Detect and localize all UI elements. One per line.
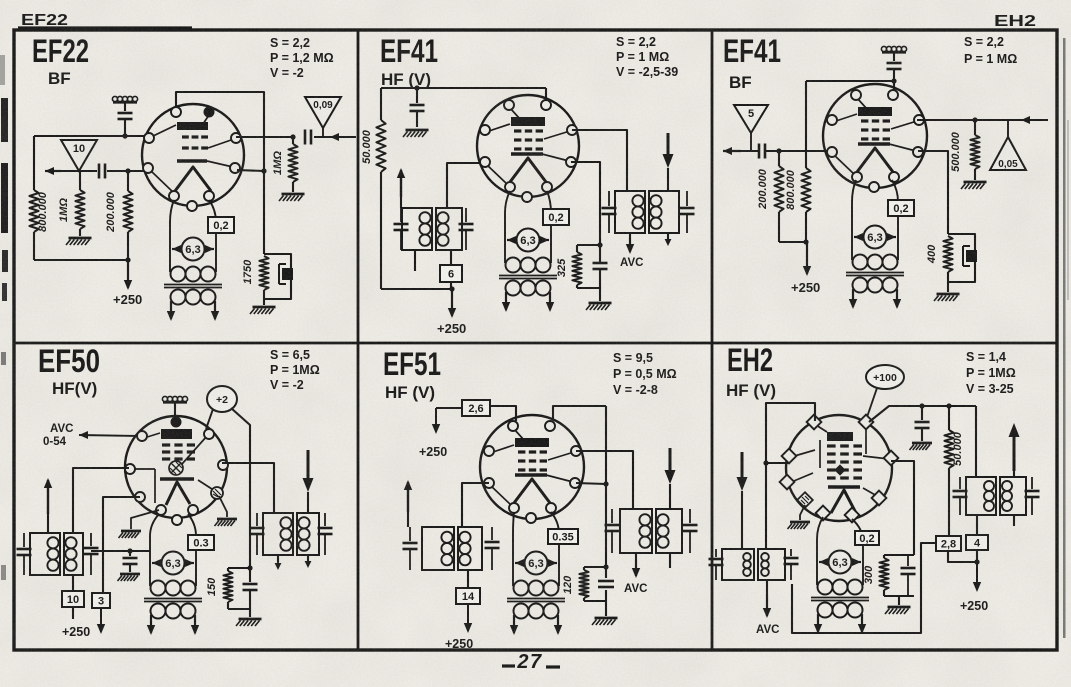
wire grid lead to T5 — [462, 483, 489, 527]
wire anode lead to T6 — [576, 451, 633, 509]
box anode current 10 mA — [62, 591, 84, 607]
ground cathode (EF41 HF) — [589, 302, 612, 305]
arrow signal input from right — [329, 136, 331, 138]
wire oscillator cathode branch — [891, 461, 914, 555]
wire grid-1 input bus y136 — [34, 135, 150, 137]
resistor R2 1 Mohm grid leak — [75, 190, 84, 229]
node bus — [919, 403, 924, 408]
wire heater lead right (EF41HF) — [547, 191, 551, 263]
box screen current 3 mA — [92, 593, 110, 608]
wire bus to T8 — [975, 406, 977, 477]
transformer secondary leads with arrows (EF41BF) — [852, 289, 854, 307]
wire can2 to box — [450, 250, 452, 265]
resistor R6 50.000 ohm screen feed — [376, 120, 385, 172]
transformer secondary (EF41HF) — [506, 281, 521, 296]
heater voltage circle 6,3 V (EF51) — [525, 552, 548, 575]
wire anode lead to right transformer — [572, 130, 627, 191]
capacitor C20 tuning — [409, 527, 411, 541]
arrow signal input big down — [667, 133, 670, 164]
wire stem to R9 — [805, 81, 807, 168]
arrow AVC to grid — [78, 434, 80, 436]
node top bus — [414, 85, 419, 90]
transformer secondary (EF41BF) — [853, 278, 868, 293]
heater voltage circle 6,3 V (EF41BF) — [864, 226, 887, 249]
mains transformer primary (EF41BF) — [853, 255, 868, 270]
wire under can (EH2) — [1013, 515, 1015, 526]
ground under oscillator pin (EF50) — [219, 496, 227, 517]
tube EF22 envelope with electrodes — [142, 104, 244, 206]
arrow AVC down (EH2) — [766, 580, 768, 594]
capacitance box 0.3 pF (EF50) — [188, 535, 214, 550]
wire heater lead left (EH2) — [817, 517, 823, 585]
capacitor C16 cathode bypass — [129, 551, 131, 556]
capacitor C29 tuning — [1031, 477, 1033, 489]
transformer secondary leads with arrows (EF22) — [170, 301, 172, 319]
arrows under can (EF50) — [277, 555, 279, 562]
capacitor C13 electrolytic bypass — [966, 250, 977, 262]
wire grid to frame — [766, 462, 789, 464]
wire R14 to box 2,8 — [948, 468, 950, 536]
arrow AVC output down — [629, 233, 631, 238]
wire screen bus to tube and right — [490, 406, 516, 421]
wire stem to ground — [947, 282, 949, 292]
wire anode top bus (EH2) — [869, 406, 976, 422]
mains transformer primary (EF51) — [514, 581, 529, 596]
wire heater lead right (EF51) — [551, 512, 559, 586]
wire left column down — [380, 172, 382, 289]
supply +250 arrow (EH2) — [976, 562, 978, 590]
mixer dot electrode — [834, 464, 845, 475]
ground under R2 — [79, 229, 81, 236]
resistor R3 200.000 ohm — [123, 191, 132, 232]
wire boxes to +250 — [948, 551, 977, 562]
wire cathode branch (EF41 BF) — [918, 151, 948, 234]
triangle input level 0,09 — [305, 97, 341, 128]
transformer secondary leads with arrows (EF51) — [513, 615, 515, 633]
capacitor C28 tuning — [959, 477, 961, 489]
wire heater lead left (EF41HF) — [505, 191, 510, 263]
IF transformer T4 right (EF50) — [263, 513, 293, 555]
IF transformer T3 left (EF50) — [30, 533, 60, 575]
resistor R8 200.000 ohm — [778, 151, 780, 166]
box screen current 2,6 mA — [462, 400, 490, 416]
node grid divider junction — [776, 148, 781, 153]
IF transformer T7 left (EH2) — [722, 549, 754, 580]
capacitor C15 tuning — [90, 533, 92, 546]
capacitance box 0.35 pF — [548, 529, 578, 544]
capacitor C14 tuning — [23, 533, 25, 547]
arrow anode signal up (EF51) — [407, 512, 409, 527]
capacitor C27 decoupling — [921, 406, 923, 420]
mains transformer primary (EH2) — [818, 580, 833, 595]
transformer secondary (EF22) — [171, 290, 186, 305]
capacitor C30 bypass — [907, 555, 909, 566]
wire under can — [414, 250, 416, 271]
wire under can (EF51) — [669, 553, 671, 568]
heater voltage circle 6,3 V (EF22) — [182, 238, 205, 261]
box current 4 mA — [966, 535, 988, 550]
wire cathode-screen branch — [571, 162, 600, 245]
supply +250 V arrow — [127, 260, 129, 288]
capacitor C10 cathode bypass — [593, 262, 608, 265]
wire grid input y151 — [741, 150, 759, 152]
wire stem to tube pin — [893, 69, 895, 91]
scan artifact page edge right — [1063, 38, 1066, 638]
wire stems +250 (EF50) — [72, 607, 74, 619]
heater measurement arrows (EF50) — [152, 562, 161, 564]
ground under C5 — [416, 111, 418, 127]
arrow output left (EF41 BF) — [723, 150, 741, 152]
resistor R12 150 ohm cathode — [227, 568, 229, 571]
arrow signal input big down (EH2) — [741, 452, 744, 487]
arrow signal output big up (EH2) — [1013, 471, 1015, 477]
wire heater lead left (EF50) — [150, 514, 159, 586]
tube EF41 BF envelope with electrodes — [823, 84, 927, 188]
transformer secondary (EF50) — [151, 604, 166, 619]
supply +250 arrow (EF51 top) — [435, 408, 437, 432]
wire to ground — [599, 288, 601, 301]
wire RC top bus (EF50) — [228, 567, 250, 569]
wire stem to ground — [263, 290, 265, 305]
wire screen bus y81 — [806, 80, 894, 82]
box current 2,8 mA — [936, 536, 961, 551]
wire to input triangle — [314, 136, 356, 138]
transformer core (EF22) — [164, 284, 222, 286]
node input divider — [972, 117, 977, 122]
ground cathode (EH2) — [888, 606, 911, 609]
mains transformer primary (EF50) — [151, 581, 166, 596]
wire bottom bus (EF41 BF) — [778, 212, 780, 242]
resistor R14 50.000 ohm — [948, 406, 950, 430]
capacitor C25 tuning — [715, 549, 717, 557]
arrow AVC down (EF51) — [635, 553, 637, 560]
ground cathode (EF41 BF) — [937, 293, 960, 296]
wire heater lead right (EF41BF) — [892, 180, 898, 260]
box anode current 14 mA — [456, 588, 480, 604]
capacitance box 0,2 pF (EF41 HF) — [543, 209, 569, 225]
heater voltage circle 6,3 V (EH2) — [829, 551, 852, 574]
box screen current 6 mA — [440, 265, 462, 282]
wire bottom bus y260 — [33, 232, 35, 260]
capacitor C17 tuning — [256, 513, 258, 526]
ground (coil style) top of EF41 BF — [881, 46, 886, 51]
wire bottom frame (EH2) — [792, 543, 936, 633]
IF transformer T1 left (EF41 HF) — [402, 208, 432, 250]
row divider line — [14, 342, 1057, 345]
wire grid lead to left transformer — [73, 468, 129, 533]
node junction at top capacitor branch — [122, 133, 127, 138]
wire grid3 bus to tube — [236, 136, 294, 138]
wire RC bottom bus (EF51) — [584, 600, 606, 602]
transformer secondary leads with arrows (EF41HF) — [505, 292, 507, 310]
transformer core (EF41HF) — [499, 275, 557, 277]
heater measurement arrows (EH2) — [819, 561, 828, 563]
supply +250 V arrow (EF41 HF) — [451, 289, 453, 316]
wire +100 to tube — [866, 388, 877, 420]
wire heater lead left (EF41BF) — [852, 180, 856, 260]
mains transformer primary (EF22) — [171, 267, 186, 282]
wire top supply bus y88 — [381, 87, 546, 89]
transformer secondary leads with arrows (EH2) — [817, 614, 819, 632]
resistor R1 800.000 ohm — [29, 190, 38, 232]
arrow signal input big down (EF50) — [307, 450, 310, 488]
mains transformer primary (EF41HF) — [506, 258, 521, 273]
arrow signal output left — [45, 170, 61, 172]
ground (coil style) above decoupling capacitor C1 — [112, 96, 117, 101]
triangle gain 5 — [734, 105, 768, 133]
wire top-left frame of EH2 — [766, 403, 815, 549]
capacitor C12 coupling — [758, 144, 761, 159]
capacitor C4 electrolytic bypass — [282, 268, 293, 280]
transformer secondary (EH2) — [818, 603, 833, 618]
wire RC top bus (EF51) — [584, 566, 606, 568]
IF transformer T2 right (EF41 HF) — [615, 191, 645, 233]
capacitor C3 input coupling — [304, 130, 307, 145]
capacitor C22 tuning — [611, 509, 613, 523]
ground under C27 — [921, 428, 923, 441]
tube EF41 envelope with electrodes — [477, 95, 579, 197]
capacitor C11 grid2 decoupling — [887, 62, 902, 65]
wire RC top bus (EH2) — [884, 554, 914, 556]
screen grid cap ball — [169, 461, 183, 475]
scan artifact marks left margin — [1, 98, 8, 142]
wire stem — [124, 103, 126, 111]
header underline — [18, 26, 192, 28]
heater measurement arrows (EF51) — [515, 562, 524, 564]
ground (coil style) top of EF50 — [162, 396, 167, 401]
resistor R7 325 ohm cathode — [576, 245, 578, 252]
arrow anode signal up (EF50) — [47, 514, 49, 533]
wire grid3 lead to box 3 — [103, 497, 140, 593]
capacitor C9 tuning — [686, 191, 688, 206]
transformer core (EH2) — [811, 597, 869, 599]
node cathode junction — [261, 168, 266, 173]
wire grid lead from tube to T1 — [447, 163, 485, 208]
tube EH2 heptode envelope with electrodes — [786, 415, 892, 521]
ground under C16 — [120, 573, 140, 576]
wire screen pin to vertical — [576, 483, 606, 484]
wire left column vertical — [33, 136, 35, 190]
heater voltage circle 6,3 V (EF50) — [162, 552, 185, 575]
resistor R13 120 ohm — [583, 567, 585, 570]
circle screen supply +2 — [207, 386, 237, 412]
column divider line 1 — [357, 30, 360, 650]
wire heater lead left (EF22) — [170, 200, 174, 272]
ground cathode (EF50) — [239, 618, 262, 621]
tube EF50 envelope with electrodes — [125, 416, 227, 518]
wire heater lead right (EF50) — [188, 514, 196, 586]
capacitor C21 tuning — [491, 527, 493, 540]
resistor R10 500.000 ohm — [974, 120, 976, 135]
capacitance box 0,2 (EH2) — [855, 531, 879, 545]
transformer secondary (EF51) — [514, 604, 529, 619]
circle anode supply +100 — [866, 365, 904, 389]
IF transformer T5 left (EF51) — [422, 527, 454, 570]
wire anode bus y119 to input network — [917, 119, 1048, 121]
capacitor C1 decoupling — [118, 112, 133, 115]
wire heater lead left (EF51) — [513, 512, 514, 586]
ground under R5 — [253, 306, 276, 309]
wire stem — [124, 119, 126, 136]
bypass loop wiring — [264, 254, 291, 299]
wire heater lead right (EF22) — [209, 200, 216, 272]
wire stem to tube top pin — [174, 403, 176, 415]
ground oscillator grid — [800, 505, 805, 520]
capacitor C7 tuning right — [465, 208, 467, 222]
capacitance box 0,2 pF — [208, 217, 234, 233]
wire bottom bus to +250 — [381, 288, 452, 290]
wire from box to +250 — [436, 407, 462, 409]
capacitor C19 bypass — [249, 568, 251, 582]
IF transformer T6 right (EF51) — [620, 509, 652, 553]
wire heater lead right (EH2) — [852, 519, 863, 585]
wire under can right — [667, 233, 669, 243]
ground under R4 — [292, 182, 294, 192]
wire stem to capacitor — [893, 53, 895, 61]
bypass loop wiring — [948, 234, 975, 282]
wire screen-cathode vertical x606 — [605, 406, 607, 578]
arrow anode signal up — [400, 197, 402, 208]
supply +250 arrow (EF51 bottom) — [467, 604, 469, 631]
arrow signal input big down (EF51) — [669, 448, 672, 480]
supply +250 V arrow (EF41 BF) — [806, 242, 808, 274]
transformer core (EF41BF) — [846, 272, 904, 274]
resistor R4 1 Mohm — [292, 137, 294, 144]
transformer core (EF50) — [144, 598, 202, 600]
wire RC bottom bus (EH2) — [884, 595, 914, 597]
wire cathode to loop — [237, 170, 264, 171]
wire screen branch right — [222, 463, 274, 513]
wire stem R3 — [127, 171, 129, 191]
wire RC top bus — [577, 244, 600, 246]
wire heater bypass bus y551 — [91, 550, 150, 552]
wire T8 to box 4 — [976, 515, 978, 535]
tube EF51 envelope with electrodes — [480, 415, 584, 519]
wire suppressor-cathode loop top — [176, 92, 264, 254]
transformer core (EF51) — [507, 598, 565, 600]
capacitor C5 screen decoupling — [416, 88, 418, 103]
wire RC bottom bus — [577, 287, 600, 289]
heater measurement arrows (EF41HF) — [507, 239, 516, 241]
resistor R5 1750 ohm cathode bias — [259, 256, 268, 290]
capacitor C2 coupling — [98, 164, 101, 179]
column divider line 2 — [711, 30, 714, 650]
wire stem R2 — [79, 171, 81, 190]
heater voltage circle 6,3 V (EF41HF) — [517, 229, 540, 252]
ground under vertical (EF51) — [595, 617, 618, 620]
ground filament mid — [131, 510, 159, 529]
capacitor C6 tuning left — [400, 208, 402, 222]
wire output line y171 — [55, 170, 97, 172]
ground under R10 — [974, 169, 976, 180]
resistor R11 400 ohm cathode — [943, 236, 952, 272]
capacitor C18 tuning — [324, 513, 326, 526]
capacitor C8 tuning — [608, 191, 610, 206]
capacitor C26 tuning — [790, 549, 792, 556]
capacitance box 0,2 pF (EF41 BF) — [888, 200, 914, 216]
heater measurement arrows (EF41BF) — [854, 236, 863, 238]
resistor R15 300 ohm — [883, 555, 885, 558]
heater measurement arrows (EF22) — [172, 248, 181, 250]
wire RC bottom bus (EF50) — [228, 608, 250, 610]
wire +2 to tube — [206, 409, 213, 429]
IF transformer T8 right (EH2) — [966, 477, 996, 515]
capacitor C23 tuning — [689, 509, 691, 523]
wire +2 to bypass branch — [231, 408, 250, 568]
capacitor C24 bypass — [598, 580, 614, 583]
transformer secondary leads with arrows (EF50) — [150, 615, 152, 633]
triangle input level 0,05 — [1007, 120, 1009, 137]
resistor R9 800.000 ohm — [801, 168, 810, 212]
triangle gain 10 — [61, 140, 97, 171]
arrow input from right (EF41 BF) — [1020, 119, 1022, 121]
